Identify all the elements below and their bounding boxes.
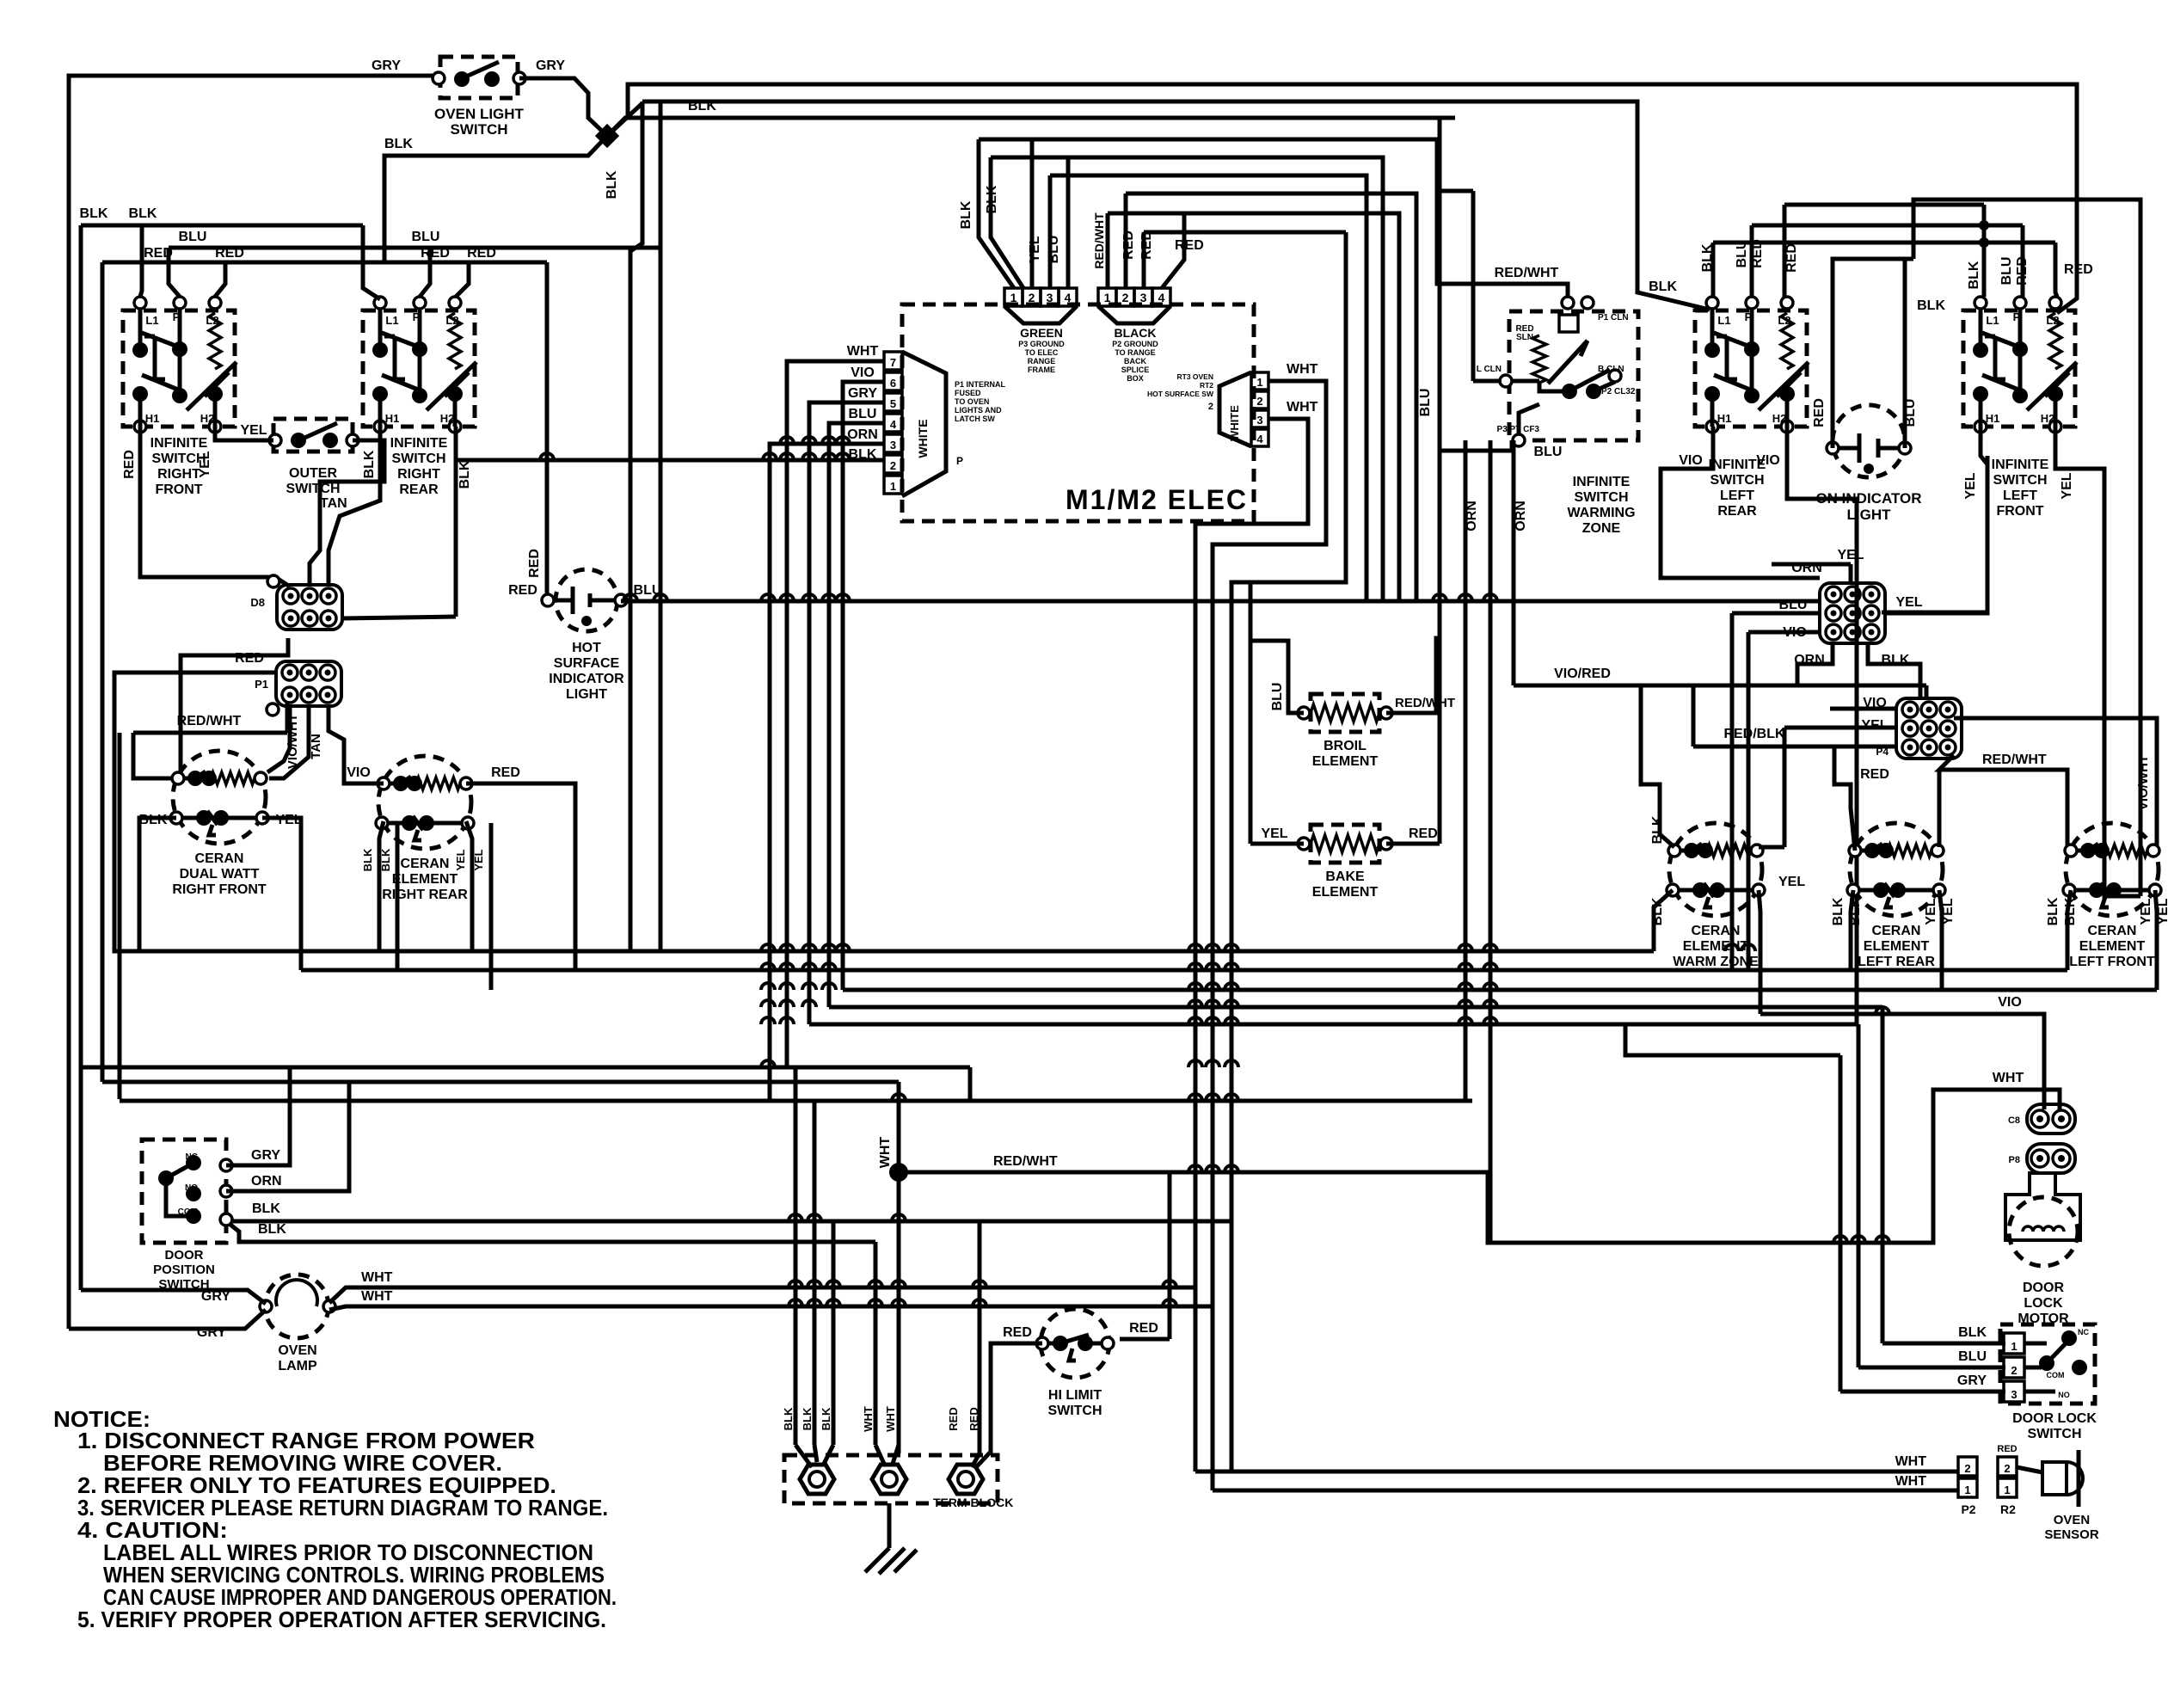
wire riser LF L1 xyxy=(1982,205,1987,297)
svg-text:CERAN: CERAN xyxy=(2088,924,2137,938)
svg-text:RED: RED xyxy=(1129,1321,1158,1336)
wire RED to black pin2 xyxy=(1124,194,1128,288)
svg-text:BLU: BLU xyxy=(1779,598,1808,612)
svg-text:4: 4 xyxy=(1256,433,1263,445)
wire BLU drop to door lock switch xyxy=(1857,1024,1861,1367)
svg-text:1: 1 xyxy=(1256,376,1262,389)
svg-text:HOT: HOT xyxy=(572,641,601,655)
svg-text:VIO/WHT: VIO/WHT xyxy=(286,714,300,769)
wire BLK feed 3 xyxy=(832,1220,836,1445)
wire VIO/RED into connector xyxy=(1925,685,1929,698)
wire BLK bus to bake riser xyxy=(607,118,1455,136)
wire BLK feed 1 diag xyxy=(795,1445,812,1467)
notice text block xyxy=(53,1406,617,1632)
svg-text:YEL: YEL xyxy=(1837,548,1864,562)
ceran element left rear xyxy=(1847,823,1945,916)
svg-text:H1: H1 xyxy=(1986,412,2000,425)
svg-text:RT2: RT2 xyxy=(1200,381,1213,390)
svg-text:GREEN: GREEN xyxy=(1020,326,1063,340)
svg-text:P3/PT CF3: P3/PT CF3 xyxy=(1497,425,1540,434)
wire left front bottom left drop xyxy=(2067,890,2071,970)
wire warm zone bottom left drop xyxy=(1654,890,1673,951)
svg-text:ORN: ORN xyxy=(847,427,878,442)
svg-text:RED: RED xyxy=(215,246,244,261)
wire riser RR L1 xyxy=(363,225,380,299)
wire nest L3 xyxy=(1050,175,1367,601)
wire bake left loop xyxy=(1250,842,1304,846)
svg-text:REAR: REAR xyxy=(1717,504,1757,519)
svg-text:YEL: YEL xyxy=(240,423,267,438)
svg-text:RT3 OVEN: RT3 OVEN xyxy=(1176,372,1213,381)
svg-text:RIGHT REAR: RIGHT REAR xyxy=(382,888,468,902)
svg-text:H2: H2 xyxy=(200,412,215,425)
wire WHT feed 2 diag xyxy=(893,1445,899,1464)
svg-text:RED: RED xyxy=(1409,826,1438,841)
svg-text:RED: RED xyxy=(1175,238,1204,253)
svg-text:RED: RED xyxy=(467,246,496,261)
wire BLK second bus xyxy=(226,1221,875,1242)
wire WHT right pin3 to oven sensor xyxy=(1195,419,1308,1471)
svg-text:WHT: WHT xyxy=(1993,1071,2024,1085)
svg-text:WHITE: WHITE xyxy=(1228,405,1241,441)
junction xyxy=(889,1163,908,1182)
wire BLU pin4 xyxy=(829,423,884,1007)
svg-text:H1: H1 xyxy=(1717,412,1732,425)
svg-text:SWITCH: SWITCH xyxy=(286,482,340,496)
connector R2 xyxy=(1998,1457,2017,1497)
wire right side long loop xyxy=(1913,200,2140,896)
wire BLK bus door position xyxy=(226,1220,1231,1224)
svg-text:REAR: REAR xyxy=(399,482,439,497)
svg-text:R2: R2 xyxy=(2000,1502,2016,1516)
svg-text:BLK: BLK xyxy=(362,450,377,478)
outer switch xyxy=(269,419,359,452)
wire branch to warming zone xyxy=(1440,189,1473,194)
svg-text:RED: RED xyxy=(491,765,520,780)
wire riser LR P xyxy=(1750,225,1754,297)
wire RED riser on indicator xyxy=(1833,259,1913,448)
wire T bus 2 xyxy=(1752,224,2023,228)
terminal block xyxy=(784,1455,998,1503)
svg-text:WHITE: WHITE xyxy=(916,419,930,458)
svg-text:2: 2 xyxy=(1964,1462,1970,1475)
svg-text:DOOR LOCK: DOOR LOCK xyxy=(2012,1411,2097,1426)
svg-text:BLU: BLU xyxy=(1999,257,2014,286)
svg-text:COM: COM xyxy=(2047,1371,2065,1379)
svg-text:TAN: TAN xyxy=(320,496,347,511)
wire GRY into pin 3 xyxy=(1840,1390,2005,1394)
svg-text:P1 CLN: P1 CLN xyxy=(1598,313,1629,323)
wire bus B xyxy=(301,968,2067,973)
svg-text:H2: H2 xyxy=(440,412,455,425)
wire to green pin4 xyxy=(1066,157,1071,288)
svg-text:BLACK: BLACK xyxy=(1115,326,1157,340)
svg-text:VIO: VIO xyxy=(1756,453,1780,468)
svg-text:RED: RED xyxy=(508,583,537,598)
wire WHT center drop xyxy=(897,1082,901,1453)
svg-text:WHT: WHT xyxy=(1287,362,1318,377)
svg-text:P2: P2 xyxy=(1961,1502,1975,1516)
svg-text:ORN: ORN xyxy=(1465,501,1479,531)
wire YEL top stub xyxy=(1849,564,1853,583)
wire RF H2 to outer switch xyxy=(215,427,273,440)
wire BLK bus upper-left xyxy=(81,224,363,228)
svg-text:BLK: BLK xyxy=(820,1407,832,1430)
svg-text:WHT: WHT xyxy=(862,1406,875,1432)
wire riser RF L1 xyxy=(140,225,142,297)
wire left vertical 3 xyxy=(101,262,105,1082)
svg-text:BLU: BLU xyxy=(1418,389,1433,417)
wire GRY pin5 xyxy=(809,402,884,1024)
wire second top bus to left rear switch L1 xyxy=(642,101,1710,310)
svg-text:BLK: BLK xyxy=(605,170,619,199)
svg-text:VIO: VIO xyxy=(347,765,371,780)
oven lamp xyxy=(260,1275,335,1338)
svg-text:RANGE: RANGE xyxy=(1028,357,1056,366)
wire center drop xyxy=(968,1067,973,1101)
wire warming zone drop 2 xyxy=(1489,440,1493,1243)
svg-text:1: 1 xyxy=(890,480,896,493)
svg-text:RED/WHT: RED/WHT xyxy=(993,1154,1058,1169)
svg-text:L1: L1 xyxy=(1986,314,1999,327)
wire left rear top left riser xyxy=(1834,746,1855,851)
svg-text:L1: L1 xyxy=(145,314,158,327)
wire BLK RR H2 drop xyxy=(454,427,458,617)
svg-text:SWITCH: SWITCH xyxy=(450,121,507,138)
svg-text:YEL: YEL xyxy=(198,451,212,477)
wire riser RR L2 xyxy=(456,262,469,297)
wire VIO to door lock connector xyxy=(1760,1014,2044,1109)
svg-text:DOOR: DOOR xyxy=(165,1248,204,1263)
svg-text:BLK: BLK xyxy=(458,460,472,488)
wire nest L6 drop to sensor line xyxy=(1231,232,1346,1471)
svg-text:FUSED: FUSED xyxy=(955,389,981,397)
svg-text:BOX: BOX xyxy=(1127,374,1144,383)
svg-text:WHT: WHT xyxy=(1895,1474,1927,1489)
control board M1/M2 ELEC xyxy=(902,304,1254,521)
wire GRY stepped bus xyxy=(1625,1024,1840,1055)
svg-text:RED: RED xyxy=(122,450,137,479)
svg-text:VIO/WHT: VIO/WHT xyxy=(2136,755,2151,810)
ground xyxy=(865,1503,917,1574)
svg-text:BLK: BLK xyxy=(688,99,716,114)
wire BLU bus from hot surface light xyxy=(621,599,1820,604)
svg-text:RED: RED xyxy=(947,1407,960,1430)
svg-text:CERAN: CERAN xyxy=(1872,924,1921,938)
wire RED connector to left loop xyxy=(114,673,276,951)
svg-text:SWITCH: SWITCH xyxy=(1047,1404,1102,1418)
svg-text:OVEN: OVEN xyxy=(278,1343,316,1358)
svg-text:VIO/RED: VIO/RED xyxy=(1554,667,1611,681)
svg-text:NC: NC xyxy=(186,1152,198,1162)
wire RF H1 to connector D8 xyxy=(140,427,290,587)
wire junction to second top bus xyxy=(607,101,642,136)
svg-text:BLU: BLU xyxy=(1534,445,1563,459)
svg-text:1: 1 xyxy=(1010,291,1017,304)
wire RED/WHT run xyxy=(133,731,287,735)
svg-text:LIGHT: LIGHT xyxy=(1847,507,1892,523)
svg-text:TO ELEC: TO ELEC xyxy=(1025,348,1059,357)
svg-text:TO RANGE: TO RANGE xyxy=(1115,348,1155,357)
wire into warming zone left xyxy=(1473,379,1500,384)
svg-text:HI LIMIT: HI LIMIT xyxy=(1048,1388,1102,1403)
svg-text:LOCK: LOCK xyxy=(2024,1296,2063,1311)
svg-text:INFINITE: INFINITE xyxy=(390,436,448,451)
connector P2 xyxy=(1958,1457,1977,1497)
svg-text:YEL: YEL xyxy=(454,849,467,870)
wire BLK to green pin1b xyxy=(991,157,1023,288)
wire long vertical left of M1/M2 xyxy=(630,101,642,951)
svg-text:BLK: BLK xyxy=(384,137,413,151)
svg-text:LATCH SW: LATCH SW xyxy=(955,415,995,423)
wire ceran RR YEL drop 2 xyxy=(489,823,494,990)
wire BLU into connector xyxy=(1732,611,1820,616)
svg-text:RIGHT: RIGHT xyxy=(157,467,200,482)
svg-text:2: 2 xyxy=(890,459,896,472)
wire RED ceran RR to bus xyxy=(466,783,575,970)
svg-text:1: 1 xyxy=(2004,1484,2010,1496)
wire riser RF P xyxy=(169,248,180,297)
svg-text:3: 3 xyxy=(1140,291,1147,304)
infinite switch right rear xyxy=(363,297,476,433)
wire ceran RR BLK drop 1 xyxy=(379,821,384,951)
svg-text:BLU: BLU xyxy=(1047,236,1061,264)
wire GRY feed left border xyxy=(69,76,439,1329)
svg-text:VIO: VIO xyxy=(1998,995,2022,1010)
svg-text:SWITCH: SWITCH xyxy=(2027,1427,2081,1441)
connector P1 surface elements xyxy=(276,661,341,706)
wire BLU riser on indicator xyxy=(1903,259,1907,448)
wire ceran RR BLK drop 2 xyxy=(396,823,400,970)
svg-text:WHT: WHT xyxy=(361,1289,393,1304)
wire bus A xyxy=(139,949,1654,954)
hi limit switch xyxy=(1036,1309,1114,1378)
svg-text:2: 2 xyxy=(1208,402,1213,412)
svg-text:TERM BLOCK: TERM BLOCK xyxy=(933,1496,1013,1509)
svg-text:NO: NO xyxy=(2058,1391,2070,1399)
wire nest L5a xyxy=(1108,212,1184,216)
wire VIO/RED bus xyxy=(1514,684,1926,688)
svg-text:LEFT REAR: LEFT REAR xyxy=(1858,955,1935,969)
svg-text:WARM ZONE: WARM ZONE xyxy=(1673,955,1759,969)
on indicator light xyxy=(1827,405,1911,477)
svg-text:3: 3 xyxy=(1256,414,1262,427)
wire BLK bottom stub xyxy=(1868,643,1920,698)
wire RED riser hi-limit xyxy=(1168,1172,1172,1339)
wire oven light switch to junction xyxy=(519,78,607,136)
wire warm zone top left riser xyxy=(1641,685,1674,847)
wire YEL to green pin2 xyxy=(1030,139,1035,288)
svg-text:P8: P8 xyxy=(2009,1155,2020,1165)
svg-text:BLK: BLK xyxy=(782,1407,795,1430)
svg-text:ELEMENT: ELEMENT xyxy=(392,872,458,887)
svg-text:BAKE: BAKE xyxy=(1325,869,1365,884)
svg-text:OVEN: OVEN xyxy=(2054,1513,2091,1527)
svg-text:2: 2 xyxy=(1256,395,1262,408)
door lock motor xyxy=(2005,1173,2080,1266)
wire GRY drop to door lock switch xyxy=(1839,1055,1843,1392)
wire bus E xyxy=(809,1023,1858,1027)
wire left loop vertical xyxy=(118,733,122,1099)
wire RR H1 to connector D8 xyxy=(329,427,380,587)
wire RED bus upper-left xyxy=(102,261,547,265)
svg-text:ZONE: ZONE xyxy=(1582,521,1621,536)
infinite switch right front xyxy=(123,297,236,433)
wire ceran RF BLK loop xyxy=(139,818,176,951)
wire RR H2 to connector D8 xyxy=(342,617,456,618)
wire GRY upper to oven lamp xyxy=(81,1290,266,1304)
svg-text:DUAL WATT: DUAL WATT xyxy=(180,867,260,882)
wire nest L5 xyxy=(1184,213,1399,601)
svg-text:C8: C8 xyxy=(2008,1115,2020,1126)
svg-text:WHT: WHT xyxy=(884,1406,897,1432)
svg-text:5. VERIFY PROPER OPERATION AF: 5. VERIFY PROPER OPERATION AFTER SERVICI… xyxy=(77,1607,606,1632)
svg-text:BLU: BLU xyxy=(849,407,877,421)
wire broil right riser xyxy=(1386,638,1440,713)
wire BLU to green pin3 xyxy=(1048,175,1053,288)
wire WHT to oven sensor 2 xyxy=(1213,1489,1958,1493)
connector WHITE P5 right xyxy=(1219,372,1268,446)
wire bus C xyxy=(843,988,2157,992)
svg-text:RED/WHT: RED/WHT xyxy=(1092,212,1106,269)
svg-text:RIGHT: RIGHT xyxy=(397,467,440,482)
wire ceran RR YEL drop 1 xyxy=(466,821,472,951)
svg-text:FRAME: FRAME xyxy=(1028,366,1055,374)
svg-text:OUTER: OUTER xyxy=(289,466,337,481)
svg-text:BLK: BLK xyxy=(959,200,973,229)
wire connector to RED/WHT run xyxy=(286,702,290,733)
wire RED/BLK riser xyxy=(1692,685,1696,746)
connector warming/elements xyxy=(1896,698,1962,759)
svg-text:H2: H2 xyxy=(2041,412,2055,425)
wire D8 to element xyxy=(181,638,288,772)
svg-text:P3 GROUND: P3 GROUND xyxy=(1018,340,1065,348)
wire RED/WHT to left front element xyxy=(1939,755,2067,847)
svg-text:BLK: BLK xyxy=(2046,897,2061,925)
svg-text:RED: RED xyxy=(1121,230,1136,260)
svg-text:FRONT: FRONT xyxy=(155,482,202,497)
wire vertical to BLU bus end xyxy=(659,101,663,951)
wire riser LR L1 xyxy=(1711,243,1716,297)
svg-text:CERAN: CERAN xyxy=(1692,924,1741,938)
svg-text:2: 2 xyxy=(1029,291,1035,304)
wire T bus 1 xyxy=(1784,203,1984,207)
svg-text:SPLICE: SPLICE xyxy=(1121,366,1150,374)
svg-text:INFINITE: INFINITE xyxy=(150,436,208,451)
svg-text:CERAN: CERAN xyxy=(195,851,244,866)
wire BLK feed 2 diag xyxy=(814,1445,817,1462)
wire bus G xyxy=(102,1080,899,1084)
svg-text:BLK: BLK xyxy=(1917,298,1945,313)
svg-text:1: 1 xyxy=(2011,1340,2017,1353)
svg-text:YEL: YEL xyxy=(1924,898,1938,925)
broil element xyxy=(1298,694,1392,732)
svg-text:RED/WHT: RED/WHT xyxy=(1982,753,2047,767)
ceran element right rear xyxy=(376,756,474,849)
svg-text:RED/BLK: RED/BLK xyxy=(1723,727,1785,741)
svg-text:BLK: BLK xyxy=(1649,280,1677,294)
svg-text:YEL: YEL xyxy=(2139,898,2153,925)
svg-text:YEL: YEL xyxy=(1963,472,1978,499)
svg-text:BLK: BLK xyxy=(1958,1325,1987,1340)
infinite switch left rear xyxy=(1695,297,1809,433)
wire VIO/WHT to left front element xyxy=(1954,718,2157,847)
svg-text:WARMING: WARMING xyxy=(1567,506,1635,520)
wire riser LR L2 xyxy=(1783,205,1787,297)
svg-text:6: 6 xyxy=(890,377,896,390)
svg-text:3: 3 xyxy=(1047,291,1053,304)
svg-text:GRY: GRY xyxy=(251,1148,280,1163)
svg-text:ORN: ORN xyxy=(1514,501,1528,531)
svg-text:1: 1 xyxy=(1104,291,1111,304)
wire RED/WHT to ceran RF top left xyxy=(133,733,172,778)
svg-text:RED: RED xyxy=(1784,243,1799,273)
svg-text:RED: RED xyxy=(1997,1444,2017,1454)
svg-text:BLK: BLK xyxy=(258,1222,286,1237)
svg-text:GRY: GRY xyxy=(372,58,401,73)
svg-text:YEL: YEL xyxy=(1261,826,1287,841)
svg-text:SWITCH: SWITCH xyxy=(1993,473,2047,488)
svg-text:COM: COM xyxy=(178,1207,198,1217)
svg-text:BLK: BLK xyxy=(1967,261,1981,289)
wire bus F xyxy=(81,1066,970,1070)
svg-text:BLK: BLK xyxy=(1831,897,1846,925)
wire BLU bus upper-left xyxy=(169,246,660,250)
svg-text:BACK: BACK xyxy=(1124,357,1146,366)
connector D8 xyxy=(277,585,342,630)
svg-text:SENSOR: SENSOR xyxy=(2044,1527,2099,1542)
wire BLK drop to door lock switch xyxy=(1881,1007,1885,1343)
svg-text:CERAN: CERAN xyxy=(401,857,450,871)
svg-text:LEFT FRONT: LEFT FRONT xyxy=(2069,955,2155,969)
svg-text:3: 3 xyxy=(2011,1388,2017,1401)
wire WHT feed 1 xyxy=(874,1242,878,1445)
svg-text:7: 7 xyxy=(890,356,896,369)
door lock switch xyxy=(2000,1324,2095,1404)
svg-text:TAN: TAN xyxy=(309,734,323,759)
svg-text:YEL: YEL xyxy=(472,849,485,870)
wire riser bake element RED xyxy=(1438,118,1442,844)
svg-text:D8: D8 xyxy=(250,596,265,609)
wire nest L6 xyxy=(1144,230,1346,235)
wire GRY from door position switch xyxy=(226,1067,290,1165)
wire RED/WHT to black pin1 xyxy=(1106,213,1110,288)
wire BLU drop xyxy=(1730,613,1735,970)
svg-text:OVEN LIGHT: OVEN LIGHT xyxy=(434,106,525,122)
svg-text:2: 2 xyxy=(2004,1462,2010,1475)
wire RED feed 2 diag xyxy=(972,1453,980,1467)
svg-text:B CLN: B CLN xyxy=(1598,365,1624,374)
svg-text:BLK: BLK xyxy=(361,848,374,871)
wire RED to black pin3 xyxy=(1142,232,1146,288)
svg-text:ELEMENT: ELEMENT xyxy=(2079,939,2146,954)
wire BLU into pin 2 xyxy=(1858,1366,2005,1370)
wire WHT right pin1 to oven sensor xyxy=(1213,381,1326,1490)
svg-text:RED/WHT: RED/WHT xyxy=(177,714,242,728)
svg-text:POSITION: POSITION xyxy=(153,1263,215,1277)
svg-text:RED: RED xyxy=(527,549,542,578)
oven sensor xyxy=(2017,1450,2083,1507)
wire LR H2 drop xyxy=(1787,427,1857,1024)
svg-text:BLK: BLK xyxy=(80,206,108,221)
connector GREEN P3 xyxy=(1004,288,1077,323)
wire WHT feed 1 diag xyxy=(875,1445,884,1464)
svg-text:2: 2 xyxy=(1122,291,1129,304)
wire VIO connector to ceran RR xyxy=(329,706,384,783)
ceran dual watt right front xyxy=(170,751,268,844)
svg-text:LAMP: LAMP xyxy=(278,1359,317,1373)
svg-text:LIGHT: LIGHT xyxy=(566,687,607,702)
